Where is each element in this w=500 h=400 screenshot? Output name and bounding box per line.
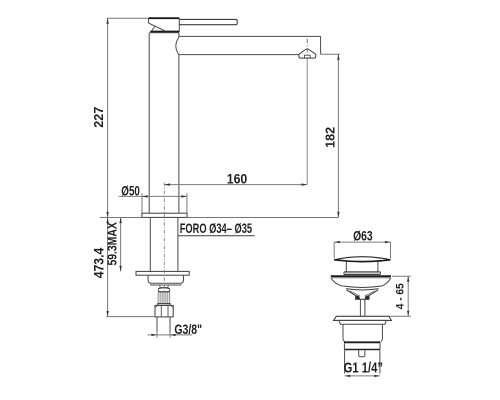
cone V outer right bbox=[366, 290, 378, 298]
flange second line bbox=[332, 277, 391, 279]
plug nut left wedge bbox=[355, 296, 360, 300]
G3/8 ext right bbox=[169, 332, 171, 338]
G1 1/4 dim line bbox=[345, 375, 380, 377]
cone V inner right bbox=[365, 291, 375, 296]
gasket bbox=[339, 320, 386, 324]
160 arrow left bbox=[164, 183, 170, 185]
lower cylinder right bbox=[379, 350, 381, 373]
funnel lip lower arc bbox=[346, 289, 379, 290]
braided hose section bbox=[158, 293, 170, 304]
body right edge upper bbox=[178, 33, 180, 38]
cartridge cap left edge bbox=[147, 18, 149, 23]
aerator centerline dashed bbox=[306, 39, 308, 58]
G1 arrow right bbox=[374, 375, 380, 377]
body right edge lower bbox=[178, 55, 180, 214]
bead collar bottom line bbox=[158, 291, 170, 293]
drain body right bbox=[381, 324, 383, 339]
G3/8 ext left bbox=[156, 332, 158, 338]
body left edge bbox=[148, 33, 150, 213]
cap neck left bbox=[345, 262, 347, 272]
drain stem left bbox=[359, 299, 361, 316]
Ø63 dim line bbox=[334, 241, 390, 243]
dim line 473.4 bbox=[107, 218, 109, 317]
dark band bbox=[344, 341, 380, 343]
drain cap top arc bbox=[334, 257, 390, 260]
body top line bbox=[149, 32, 179, 34]
4-65 arrow bottom bbox=[407, 311, 409, 317]
flange (base Ø50) bbox=[142, 213, 187, 217]
cap neck right bbox=[377, 262, 379, 272]
drain body left bbox=[342, 324, 344, 339]
cone V outer left bbox=[347, 290, 359, 298]
mounting cup bbox=[148, 275, 183, 283]
cartridge cap bottom bbox=[150, 31, 179, 33]
4-65 dim line bbox=[407, 276, 409, 316]
flange top line bbox=[331, 275, 391, 277]
cartridge cap right edge bbox=[178, 18, 180, 31]
extension line spout end to 182 bbox=[321, 53, 340, 55]
spout bottom bbox=[179, 54, 299, 56]
plug nut right wedge bbox=[364, 296, 369, 300]
182 arrow top bbox=[337, 54, 339, 60]
dim line 182 bbox=[337, 54, 339, 217]
lever notch diagonal bbox=[152, 26, 156, 31]
Ø50 dim line bbox=[119, 195, 187, 197]
drain stem right bbox=[364, 299, 366, 316]
collar ring bbox=[344, 271, 380, 273]
Ø63 ext right bbox=[390, 242, 392, 259]
svg-text:182: 182 bbox=[322, 127, 337, 148]
countertop line right bbox=[187, 217, 338, 219]
drain cap bottom arc bbox=[334, 260, 390, 262]
funnel side right bbox=[381, 278, 391, 287]
160 arrow right bbox=[302, 183, 308, 185]
hex nut bbox=[155, 305, 173, 317]
aerator dome bbox=[299, 49, 316, 54]
cone V inner left bbox=[350, 291, 360, 296]
lever underside diagonal bbox=[148, 23, 164, 31]
funnel lip upper arc bbox=[343, 286, 381, 287]
svg-text:G1 1/4”: G1 1/4” bbox=[344, 359, 383, 376]
funnel side left bbox=[331, 278, 343, 287]
hex nut top chamfer left bbox=[155, 305, 158, 308]
Ø63 arrow left bbox=[334, 241, 340, 243]
svg-text:473.4: 473.4 bbox=[91, 247, 107, 278]
svg-text:FORO Ø34– Ø35: FORO Ø34– Ø35 bbox=[180, 220, 253, 237]
svg-text:59.3MAX: 59.3MAX bbox=[106, 222, 120, 265]
mounting washer bbox=[136, 271, 189, 275]
Ø63 arrow right bbox=[385, 241, 391, 243]
arrow 59.3 top bbox=[119, 218, 121, 224]
lower cylinder left bbox=[344, 350, 346, 373]
svg-text:227: 227 bbox=[91, 107, 106, 128]
4-65 ext top bbox=[392, 275, 411, 277]
nipple bbox=[160, 285, 168, 288]
spout right end bbox=[320, 36, 322, 54]
extension line top (227) bbox=[107, 17, 149, 19]
Ø63 ext left bbox=[333, 242, 335, 259]
arrow 59.3 bottom bbox=[119, 266, 121, 272]
spout top bbox=[179, 35, 320, 37]
Ø50 arrow left bbox=[142, 195, 148, 197]
ring below band right bbox=[379, 343, 381, 349]
G3/8 arrow left bbox=[151, 334, 157, 336]
arrow 473.4 bottom bbox=[106, 311, 108, 317]
bead collar top arc bbox=[158, 287, 169, 290]
G3/8 pipe right edge bbox=[169, 317, 171, 332]
aerator extension line down to 160 bbox=[306, 59, 308, 185]
arrow 227 top bbox=[106, 18, 108, 24]
plug nut bottom line bbox=[355, 298, 369, 300]
G1 arrow left bbox=[345, 375, 351, 377]
hex nut top chamfer right bbox=[171, 305, 174, 308]
svg-text:Ø63: Ø63 bbox=[353, 228, 373, 244]
Ø50 extension left bbox=[141, 193, 143, 213]
shank right edge bbox=[177, 218, 179, 272]
countertop line left bbox=[100, 217, 142, 219]
overflow pin bbox=[359, 350, 365, 357]
Ø50 arrow right bbox=[181, 195, 187, 197]
reference line to nut bottom bbox=[106, 316, 155, 318]
body chamfer left bbox=[343, 340, 344, 342]
bead collar sides bbox=[158, 289, 169, 292]
Ø50 extension right bbox=[186, 193, 188, 213]
182 arrow bottom bbox=[337, 212, 339, 218]
cup rim line bbox=[150, 284, 182, 286]
cartridge cap top bbox=[149, 17, 180, 19]
aerator skirt bbox=[299, 54, 316, 58]
aerator outlet bbox=[304, 55, 310, 58]
4-65 ext bottom bbox=[390, 315, 411, 317]
hex facet left bbox=[160, 305, 162, 317]
shank left edge bbox=[149, 218, 151, 272]
svg-text:4 - 65: 4 - 65 bbox=[394, 283, 407, 309]
arrow 473.4 top bbox=[106, 218, 108, 224]
dim line 160 bbox=[164, 184, 307, 186]
ring bottom dark line bbox=[344, 349, 380, 351]
ring below band left bbox=[343, 343, 345, 349]
lower plate bbox=[334, 316, 392, 320]
svg-text:160: 160 bbox=[227, 171, 248, 187]
svg-text:Ø50: Ø50 bbox=[121, 183, 140, 199]
dim line 59.3MAX bbox=[120, 218, 122, 272]
faucet centerline lower bbox=[163, 183, 165, 292]
arrow 227 bottom bbox=[106, 212, 108, 218]
4-65 arrow top bbox=[407, 276, 409, 282]
G3/8 pipe left edge bbox=[156, 317, 158, 332]
G3/8 arrow right bbox=[170, 334, 176, 336]
braid bottom ring bbox=[158, 304, 171, 306]
G3/8 dim line + underline bbox=[148, 334, 193, 336]
FORO underline leader bbox=[178, 235, 255, 237]
body chamfer right bbox=[381, 340, 382, 342]
hex facet right bbox=[167, 305, 169, 317]
dim line 227 bbox=[107, 18, 109, 217]
lever handle bar bbox=[179, 19, 237, 24]
spout left rounded end bbox=[176, 37, 179, 54]
